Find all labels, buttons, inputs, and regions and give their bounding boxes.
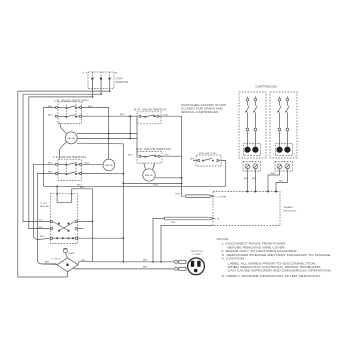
wire ignitor N to left bus	[18, 80, 110, 91]
svg-text:L.F. VALVE SWITCH: L.F. VALVE SWITCH	[53, 155, 86, 159]
wire band b2	[77, 138, 137, 140]
svg-text:BK: BK	[143, 267, 148, 269]
cartridge block CB1	[239, 92, 266, 171]
cartridge CB1 channel 1	[244, 97, 250, 169]
R.R. valve switch S3	[128, 108, 168, 124]
wire vertical v4	[29, 97, 51, 229]
valve V1	[59, 123, 77, 160]
svg-text:MODULE: MODULE	[284, 211, 298, 213]
wire vertical x92 to TOD	[78, 189, 93, 264]
svg-text:GRN: GRN	[68, 253, 75, 255]
connector lug L.LINE	[176, 186, 227, 198]
wire TOD left BK	[42, 263, 58, 266]
svg-text:NOTICE:: NOTICE:	[217, 237, 230, 241]
wire plug lower	[73, 267, 174, 270]
svg-text:TOP: TOP	[116, 77, 123, 81]
wire relay right row3	[78, 237, 124, 239]
wire ignitor L1 to left bus	[29, 80, 93, 97]
oven ignitor switch S5	[190, 153, 221, 166]
svg-text:IGNITOR: IGNITOR	[116, 80, 129, 84]
valve V2	[103, 159, 115, 171]
connector CN2	[175, 267, 187, 270]
wire LR row1 right to valve V2 top	[82, 108, 109, 160]
svg-text:7.5V: 7.5V	[40, 203, 48, 205]
svg-text:VALVE: VALVE	[145, 174, 154, 177]
svg-text:RD: RD	[176, 194, 181, 196]
supply cord plug P1	[188, 251, 205, 275]
svg-text:VALVE: VALVE	[105, 164, 114, 167]
valve V3	[143, 163, 155, 181]
svg-text:L.LINE: L.LINE	[216, 196, 227, 198]
svg-text:SPK SW TOP: SPK SW TOP	[199, 153, 218, 155]
wire vertical v6	[38, 173, 57, 264]
wire LF row2 left	[38, 173, 56, 175]
L.F. valve switch S2	[48, 155, 89, 180]
wire module bottom left	[161, 226, 213, 262]
wire band b1	[77, 133, 137, 135]
cartridge CB1 channel 2	[252, 97, 258, 169]
wire vertical v2	[18, 91, 68, 277]
cartridge CB2 channel 2	[284, 97, 290, 169]
wire bus y186	[44, 185, 226, 187]
cartridge CB2 channel 1	[276, 97, 282, 169]
wire cart1 electrode 1 to module	[247, 169, 249, 192]
svg-text:5. VERIFY PROPER OPERATION AFT: 5. VERIFY PROPER OPERATION AFTER SERVICI…	[222, 274, 322, 278]
connector CN1	[175, 260, 187, 263]
wire LF row1 right to valve V2	[82, 163, 103, 165]
wire band b3	[77, 143, 123, 262]
TOD thermostat	[51, 258, 78, 272]
svg-text:4. CAUTION:: 4. CAUTION:	[222, 257, 246, 261]
wire vertical x130	[129, 116, 131, 138]
top ignitor TI1	[83, 72, 128, 89]
svg-text:WH: WH	[84, 100, 89, 102]
wire ignitor mid to left bus	[23, 80, 101, 94]
wire y183 link	[123, 182, 181, 184]
L.R. valve switch S1	[48, 98, 93, 123]
wire cart2 electrode 2 to module	[276, 169, 287, 192]
wire LF row1 left	[34, 163, 56, 165]
wire plug upper	[93, 261, 175, 263]
wire LR row2 right to RR left	[82, 115, 137, 117]
wire valve V3 right to bus	[155, 177, 181, 179]
svg-text:CORD: CORD	[193, 254, 203, 256]
svg-text:BK: BK	[244, 178, 249, 180]
cartridge block CB2	[270, 92, 297, 171]
wire vertical v5	[34, 164, 51, 239]
svg-text:WH: WH	[171, 222, 176, 224]
svg-text:SWITCHES SHOWN IN OFF.: SWITCHES SHOWN IN OFF.	[181, 103, 227, 107]
svg-text:WH: WH	[81, 260, 86, 262]
relay contacts	[39, 220, 78, 240]
svg-text:CAN CAUSE IMPROPER AND DANGERO: CAN CAUSE IMPROPER AND DANGEROUS OPERATI…	[228, 269, 332, 273]
svg-text:SPECIAL CARTRIDGES.: SPECIAL CARTRIDGES.	[181, 110, 219, 114]
wire LF row2 right	[82, 173, 124, 175]
note switches text	[181, 103, 227, 114]
connector lug N	[152, 217, 220, 262]
wire vertical v3	[23, 94, 51, 221]
wire vertical v7	[44, 108, 56, 187]
svg-text:N: N	[217, 219, 220, 221]
svg-text:R.R. VALVE SWITCH: R.R. VALVE SWITCH	[134, 108, 166, 112]
wire TOD bottom to lower wire	[67, 272, 69, 277]
svg-text:N: N	[115, 73, 118, 75]
wire cart2 electrode 1 to module	[268, 169, 280, 192]
svg-text:SPARK: SPARK	[284, 206, 294, 209]
svg-text:R.F. VALVE SWITCH: R.F. VALVE SWITCH	[136, 147, 171, 151]
svg-text:7.5V: 7.5V	[51, 258, 61, 260]
wire RF right stub	[160, 155, 181, 157]
notice text block	[217, 237, 332, 278]
wire cart1 electrode 2 to module	[254, 169, 256, 192]
svg-text:RD: RD	[40, 236, 45, 238]
R.F. valve switch S4	[128, 147, 171, 163]
svg-text:BU: BU	[48, 115, 53, 117]
svg-text:SUPPLY: SUPPLY	[191, 251, 204, 253]
svg-text:RELAY: RELAY	[40, 205, 50, 208]
wire relay right row1	[78, 221, 93, 223]
wire RRbox-RFbox left link x134	[136, 116, 138, 156]
svg-text:VALVE: VALVE	[67, 137, 76, 140]
ground GRN stub	[63, 248, 75, 258]
wire oven switch riser x225	[221, 161, 226, 187]
svg-text:BU: BU	[128, 154, 133, 156]
wire relay right row2 stub	[78, 228, 84, 230]
svg-text:BU: BU	[128, 116, 133, 118]
svg-text:BK: BK	[45, 262, 50, 264]
spark module U1	[213, 192, 297, 226]
relay box K1	[40, 186, 93, 243]
svg-text:BU: BU	[154, 184, 159, 186]
svg-text:BK: BK	[143, 260, 148, 262]
svg-text:CARTRIDGES: CARTRIDGES	[256, 84, 278, 88]
svg-text:BU: BU	[120, 114, 125, 116]
wire RR right down x181	[159, 116, 181, 186]
svg-text:CLOSED FOR SPARK AND: CLOSED FOR SPARK AND	[181, 107, 223, 111]
svg-text:RD: RD	[80, 187, 85, 189]
svg-text:BU: BU	[39, 227, 44, 229]
svg-text:BK: BK	[252, 178, 257, 180]
